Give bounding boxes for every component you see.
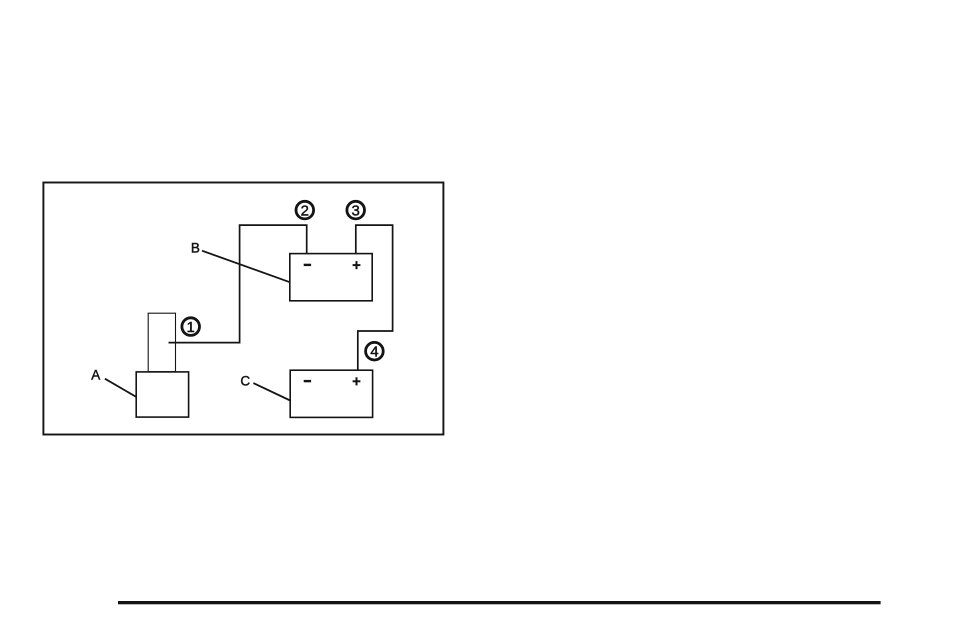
battery C body [290, 370, 372, 417]
callout circle 2 [296, 201, 314, 219]
battery C negative terminal sign [304, 380, 311, 382]
page footer rule (decorative) [118, 601, 881, 604]
battery B negative terminal sign [304, 264, 311, 266]
svg-text:4: 4 [370, 344, 378, 361]
leader line for C [253, 383, 290, 400]
wire: A post to battery B negative (connection 1 to 2) [169, 225, 307, 343]
callout circle 4 [366, 342, 384, 360]
svg-text:B: B [191, 241, 200, 256]
battery C positive terminal sign [353, 380, 361, 382]
battery B body [290, 254, 372, 301]
svg-text:3: 3 [352, 202, 360, 219]
svg-text:2: 2 [301, 202, 309, 219]
component A (starter/terminal block) body [136, 372, 188, 417]
component A post [148, 313, 175, 372]
svg-text:A: A [91, 368, 100, 383]
wire: battery B positive to battery C positive (connection 3 to 4) [356, 225, 393, 370]
leader line for B [202, 251, 290, 283]
battery B positive terminal sign [353, 264, 361, 266]
svg-text:1: 1 [187, 319, 195, 336]
callout circle 3 [347, 201, 365, 219]
callout circle 1 [182, 318, 200, 336]
leader line for A [105, 379, 136, 397]
svg-text:C: C [240, 374, 250, 389]
